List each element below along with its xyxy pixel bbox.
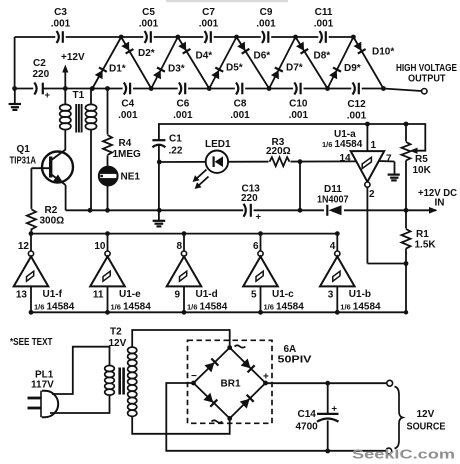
svg-text:6A: 6A: [284, 344, 297, 355]
svg-text:T1: T1: [73, 90, 85, 101]
svg-text:D9*: D9*: [344, 63, 361, 74]
12V source top terminal: [387, 380, 393, 386]
transistor Q1: [10, 144, 74, 210]
svg-text:HIGH VOLTAGE: HIGH VOLTAGE: [396, 63, 457, 74]
svg-text:D1*: D1*: [109, 64, 126, 75]
svg-text:14584: 14584: [276, 302, 304, 313]
svg-text:D11: D11: [324, 184, 342, 195]
svg-text:D7*: D7*: [286, 63, 303, 74]
svg-text:C14: C14: [298, 409, 317, 420]
svg-text:C6: C6: [177, 99, 190, 110]
wire plug to T2 primary bottom: [50, 395, 110, 413]
svg-text:C9: C9: [260, 7, 273, 18]
node dots (osc section): [88, 122, 409, 315]
svg-text:12: 12: [18, 241, 30, 252]
svg-text:220Ω: 220Ω: [266, 146, 291, 157]
svg-text:C4: C4: [121, 99, 134, 110]
svg-text:14584: 14584: [353, 302, 381, 313]
svg-text:.001: .001: [230, 110, 250, 121]
capacitor C10: [289, 82, 309, 122]
capacitor C13: [241, 184, 262, 223]
LED1: [193, 139, 231, 189]
svg-text:8: 8: [176, 241, 182, 252]
transformer T2 secondary winding: [128, 347, 137, 353]
+12V DC IN arrow: [418, 188, 457, 214]
wire bridge + output to 12V source terminal: [266, 382, 387, 384]
wire U1-a pin2 to R1 bottom node: [367, 263, 406, 265]
resistor R2: [25, 168, 64, 233]
capacitor C11: [314, 7, 334, 44]
transformer T1 primary winding: [60, 89, 85, 151]
svg-text:1/6: 1/6: [34, 303, 44, 312]
capacitor C14: [296, 383, 339, 451]
ground (middle, on bus): [153, 210, 166, 226]
svg-text:D8*: D8*: [314, 51, 331, 62]
svg-text:SeekIC.com: SeekIC.com: [352, 447, 455, 462]
svg-text:13: 13: [16, 290, 28, 301]
svg-text:.001: .001: [314, 19, 334, 30]
svg-text:10: 10: [94, 241, 106, 252]
diode D9: [328, 37, 354, 89]
svg-text:10K: 10K: [413, 165, 432, 176]
svg-text:14: 14: [340, 153, 352, 164]
node dots bottom rail: [12, 86, 386, 91]
label 12V SOURCE: [407, 409, 446, 433]
svg-text:C3: C3: [54, 7, 67, 18]
12V source bottom terminal: [386, 448, 392, 454]
capacitor C3: [51, 7, 71, 44]
left vertical wire: [14, 37, 16, 89]
svg-text:220: 220: [33, 69, 50, 80]
inverter U1-d: [167, 231, 228, 314]
svg-text:R1: R1: [416, 229, 429, 240]
svg-text:D2*: D2*: [138, 48, 155, 59]
svg-text:1/6: 1/6: [264, 303, 274, 312]
svg-text:9: 9: [174, 290, 180, 301]
svg-text:117V: 117V: [31, 380, 54, 391]
svg-text:R5: R5: [415, 154, 428, 165]
bridge BR1 diamond: [194, 348, 266, 419]
label 6A 50PIV: [278, 344, 312, 366]
resistor R4: [102, 89, 142, 168]
resistor R3: [266, 137, 291, 169]
svg-text:1/6: 1/6: [340, 303, 350, 312]
svg-text:12V: 12V: [417, 409, 435, 420]
diode D2: [121, 37, 151, 89]
svg-text:IN: IN: [435, 198, 445, 209]
svg-text:.001: .001: [256, 19, 276, 30]
inverter input bus wire: [31, 233, 337, 235]
svg-text:1N4007: 1N4007: [317, 195, 349, 206]
bridge rectifier dashed box: [188, 340, 273, 423]
wire T2 secondary bottom to bridge: [132, 416, 230, 434]
svg-text:6: 6: [253, 241, 259, 252]
diode D5: [209, 37, 236, 89]
svg-text:C7: C7: [202, 7, 215, 18]
capacitor C2: [33, 58, 51, 101]
svg-text:D6*: D6*: [254, 51, 271, 62]
svg-text:LED1: LED1: [205, 139, 231, 150]
transformer T2 primary winding: [105, 366, 115, 372]
svg-text:5: 5: [251, 290, 257, 301]
inverter U1-e: [90, 231, 151, 314]
svg-text:1/6: 1/6: [322, 140, 332, 149]
inverter U1-c: [243, 231, 304, 314]
svg-text:R2: R2: [45, 205, 58, 216]
transformer T2 core: [120, 368, 124, 395]
svg-text:1: 1: [371, 140, 377, 151]
svg-text:50PIV: 50PIV: [278, 355, 312, 366]
svg-text:U1-d: U1-d: [196, 289, 218, 300]
transformer T1 secondary winding: [85, 89, 96, 211]
svg-text:C12: C12: [347, 99, 366, 110]
capacitor C5: [139, 7, 159, 44]
node dots top rail: [119, 35, 356, 40]
svg-text:.001: .001: [289, 110, 309, 121]
diode D10: [353, 37, 383, 89]
wire bridge - return to 12V source bottom terminal: [166, 383, 386, 451]
svg-text:+: +: [45, 90, 51, 101]
svg-text:C1: C1: [169, 134, 182, 145]
svg-text:1.5K: 1.5K: [415, 240, 437, 251]
svg-text:1/6: 1/6: [111, 303, 121, 312]
svg-text:14584: 14584: [200, 302, 228, 313]
inverter output bus wire: [31, 311, 406, 313]
diode D1: [92, 37, 121, 89]
capacitor C6: [173, 82, 193, 122]
capacitor C12: [347, 82, 367, 122]
svg-text:C5: C5: [142, 7, 155, 18]
svg-text:U1-c: U1-c: [272, 289, 294, 300]
svg-text:T2: T2: [110, 327, 122, 338]
high voltage output terminal: [422, 89, 427, 94]
capacitor C9: [256, 7, 276, 44]
wire C1 node to LED1 and R3 to U1-a pin14: [159, 160, 356, 163]
diode D3: [151, 37, 178, 89]
svg-text:14584: 14584: [335, 139, 363, 150]
svg-text:1MEG: 1MEG: [113, 149, 142, 160]
transformer T1 core: [76, 104, 81, 133]
top edge cropped title remnants: [166, 0, 288, 2]
node dots (psu): [191, 345, 330, 453]
svg-text:+: +: [256, 212, 262, 223]
svg-text:SOURCE: SOURCE: [407, 422, 446, 433]
wire plug to T2 primary top: [52, 347, 110, 394]
12V source brace: [395, 387, 403, 449]
diode D4: [178, 37, 209, 89]
svg-text:BR1: BR1: [221, 379, 241, 390]
svg-text:.001: .001: [139, 19, 159, 30]
svg-text:11: 11: [93, 290, 104, 301]
svg-text:2: 2: [369, 189, 375, 200]
svg-text:.001: .001: [173, 110, 193, 121]
capacitor C8: [230, 82, 250, 122]
potentiometer R5: [400, 142, 432, 177]
svg-text:U1-e: U1-e: [119, 289, 141, 300]
svg-text:4700: 4700: [296, 422, 319, 433]
svg-text:.001: .001: [199, 19, 219, 30]
svg-text:D3*: D3*: [168, 64, 185, 75]
capacitor C1: [152, 134, 182, 163]
svg-text:NE1: NE1: [121, 172, 141, 183]
ground (U1-a pin 7): [388, 162, 400, 181]
svg-text:+12V: +12V: [61, 52, 85, 63]
resistor R1: [400, 229, 436, 251]
svg-text:.001: .001: [118, 110, 138, 121]
svg-text:4: 4: [330, 241, 336, 252]
+12V supply arrow: [61, 52, 85, 89]
svg-text:Q1: Q1: [17, 144, 31, 155]
svg-text:.001: .001: [51, 19, 71, 30]
svg-text:14584: 14584: [123, 302, 151, 313]
svg-text:.001: .001: [347, 111, 367, 122]
capacitor C7: [199, 7, 219, 44]
ac squiggle bottom: [212, 420, 223, 422]
transformer T2 labels: [109, 327, 127, 350]
output wire: [383, 89, 421, 92]
svg-text:1/6: 1/6: [187, 303, 197, 312]
capacitor C4: [118, 82, 138, 122]
svg-text:U1-b: U1-b: [349, 289, 371, 300]
svg-text:D4*: D4*: [196, 51, 213, 62]
svg-text:3: 3: [328, 290, 334, 301]
svg-text:C2: C2: [33, 58, 46, 69]
diode D7: [269, 37, 295, 89]
svg-text:R4: R4: [119, 138, 132, 149]
top rail wire: [15, 36, 354, 38]
diode D6: [237, 37, 270, 89]
ac squiggle top: [235, 345, 246, 347]
plug PL1: [28, 370, 59, 418]
svg-text:300Ω: 300Ω: [40, 216, 65, 227]
neon lamp NE1: [99, 167, 140, 211]
svg-text:D10*: D10*: [372, 47, 394, 58]
svg-text:C8: C8: [234, 99, 247, 110]
svg-text:14584: 14584: [47, 302, 75, 313]
ground (left, below C2 node): [9, 89, 21, 110]
svg-text:D5*: D5*: [226, 63, 243, 74]
svg-text:+: +: [332, 404, 338, 415]
emitter/ground bus wire: [66, 209, 436, 211]
svg-text:220: 220: [241, 193, 258, 204]
svg-text:7: 7: [386, 154, 392, 165]
inverter U1-b: [320, 231, 381, 314]
svg-text:OUTPUT: OUTPUT: [408, 74, 446, 85]
diode D11: [317, 184, 349, 217]
svg-text:C10: C10: [289, 99, 308, 110]
oscillator feedback rail wire: [159, 124, 425, 151]
svg-text:−: −: [191, 371, 197, 382]
wire R3 node down to C13 line: [299, 162, 301, 211]
svg-text:U1-f: U1-f: [43, 289, 63, 300]
svg-text:*SEE TEXT: *SEE TEXT: [10, 337, 53, 348]
inverter U1-f: [14, 231, 75, 314]
diode D8: [296, 37, 328, 89]
op-amp U1-a (schmitt inverter): [322, 124, 395, 264]
bottom rail wire: [15, 88, 384, 90]
svg-text:.22: .22: [169, 146, 183, 157]
svg-text:TIP31A: TIP31A: [10, 156, 37, 167]
wire T2 secondary top to bridge: [132, 330, 230, 348]
right vertical net (R5/R1): [405, 124, 407, 312]
svg-text:C11: C11: [315, 7, 333, 18]
svg-text:12V: 12V: [109, 338, 127, 349]
